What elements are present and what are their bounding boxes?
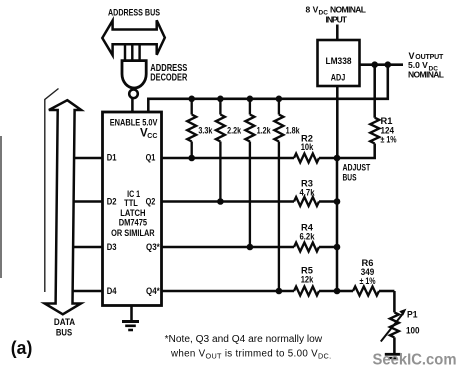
svg-text:OR SIMILAR: OR SIMILAR <box>111 228 155 239</box>
svg-text:P1: P1 <box>407 309 418 320</box>
svg-text:± 1%: ± 1% <box>360 275 376 286</box>
wire adjust bus <box>336 158 339 291</box>
svg-text:ADJUST: ADJUST <box>343 163 371 173</box>
svg-text:SeekIC.com: SeekIC.com <box>373 352 457 369</box>
wire adjust bus to R6 <box>337 290 353 293</box>
wire Q1 row <box>162 157 295 160</box>
node junction 1.2k bottom <box>247 244 254 251</box>
resistor R5 <box>294 287 319 296</box>
svg-text:± 1%: ± 1% <box>381 134 397 145</box>
svg-text:DATA: DATA <box>54 317 76 327</box>
node junction 1.8k top <box>276 96 283 103</box>
resistor 1.8k pull-up <box>278 99 280 115</box>
svg-text:ENABLE 5.0V: ENABLE 5.0V <box>110 117 158 128</box>
wire Vcc bus (latch Vcc to LM338 output) <box>148 65 387 112</box>
wire data bus double arrow <box>45 100 81 314</box>
resistor 1.2k pull-up <box>249 99 251 115</box>
wire decoder output to latch enable <box>131 98 134 112</box>
wire (left page-edge mark) <box>0 136 2 278</box>
potentiometer P1 <box>393 291 396 312</box>
svg-text:100: 100 <box>406 325 420 336</box>
wire D2 line <box>72 200 103 203</box>
ground <box>122 320 139 323</box>
gate address decoder (NAND) <box>122 61 146 88</box>
node junction R3/adjust bus <box>334 198 341 205</box>
wire Q4 row <box>162 290 295 293</box>
svg-text:BUS: BUS <box>343 172 357 182</box>
svg-text:4.7k: 4.7k <box>300 187 316 198</box>
resistor R6 <box>353 287 379 296</box>
resistor R2 <box>294 154 319 163</box>
resistor R3 <box>294 197 319 206</box>
regulator LM338 <box>318 40 360 86</box>
wire Q2 row <box>162 200 295 203</box>
svg-text:ADDRESS BUS: ADDRESS BUS <box>108 7 160 17</box>
svg-text:12k: 12k <box>301 274 314 285</box>
resistor R4 <box>294 243 319 252</box>
svg-text:D1: D1 <box>107 152 117 163</box>
node junction R4/adjust bus <box>334 244 341 251</box>
node junction 3.3k top <box>188 96 195 103</box>
svg-text:Q2: Q2 <box>146 196 156 207</box>
svg-text:NOMINAL: NOMINAL <box>408 69 444 79</box>
wire (thin vertical rule with hook) <box>45 89 59 293</box>
wire address lines to decoder <box>124 45 126 62</box>
wire latch ground stem <box>130 306 133 321</box>
svg-text:when VOUT is trimmed to 5.00 V: when VOUT is trimmed to 5.00 VDC. <box>170 349 331 361</box>
svg-text:1.2k: 1.2k <box>257 125 272 135</box>
svg-text:LM338: LM338 <box>326 56 352 66</box>
gate output bubble <box>129 90 138 99</box>
wire Q3 row <box>162 246 295 249</box>
resistor R1 <box>373 65 376 118</box>
wire LM338 output <box>360 63 404 66</box>
svg-text:1.8k: 1.8k <box>286 125 301 135</box>
wire address bus double arrow <box>102 20 165 55</box>
svg-text:D3: D3 <box>107 242 117 253</box>
node junction R2/adjust bus <box>334 155 341 162</box>
svg-text:ADJ: ADJ <box>331 73 346 83</box>
node junction 2.2k bottom <box>217 198 224 205</box>
svg-text:10k: 10k <box>301 141 314 152</box>
svg-text:DECODER: DECODER <box>150 72 188 83</box>
svg-text:3.3k: 3.3k <box>198 125 213 135</box>
svg-text:2.2k: 2.2k <box>227 125 242 135</box>
node junction 1.8k bottom <box>276 288 283 295</box>
wire D4 line <box>72 290 103 293</box>
svg-text:(a): (a) <box>11 338 33 358</box>
wire D1 line <box>72 157 103 160</box>
IC IC1 latch DM7475 box <box>103 112 162 306</box>
resistor 3.3k pull-up <box>191 99 193 115</box>
svg-text:CC: CC <box>147 133 157 140</box>
svg-text:8 V: 8 V <box>306 4 319 14</box>
node junction 2.2k top <box>217 96 224 103</box>
node junction R5/adjust bus <box>334 288 341 295</box>
wire D3 line <box>72 246 103 249</box>
ground P1 <box>385 353 401 356</box>
wire input to LM338 <box>336 25 339 41</box>
svg-text:Q4*: Q4* <box>146 286 160 297</box>
svg-text:BUS: BUS <box>56 327 72 337</box>
svg-text:D2: D2 <box>107 196 117 207</box>
svg-text:NOMINAL: NOMINAL <box>330 4 366 14</box>
svg-text:Q3*: Q3* <box>146 242 160 253</box>
node junction 3.3k bottom <box>188 155 195 162</box>
wire P1 wiper arrow <box>381 314 403 342</box>
node junction 1.2k top <box>247 96 254 103</box>
wire LM338 ADJ to adjust bus <box>336 86 339 158</box>
svg-text:*Note, Q3 and Q4 are normally: *Note, Q3 and Q4 are normally low <box>165 334 323 345</box>
svg-text:6.2k: 6.2k <box>300 230 316 241</box>
node junction output/Vcc bus <box>385 61 392 68</box>
svg-text:D4: D4 <box>107 286 117 297</box>
svg-text:INPUT: INPUT <box>326 15 348 25</box>
resistor 2.2k pull-up <box>219 99 221 115</box>
node junction output/R1 <box>371 61 378 68</box>
svg-text:Q1: Q1 <box>146 152 156 163</box>
